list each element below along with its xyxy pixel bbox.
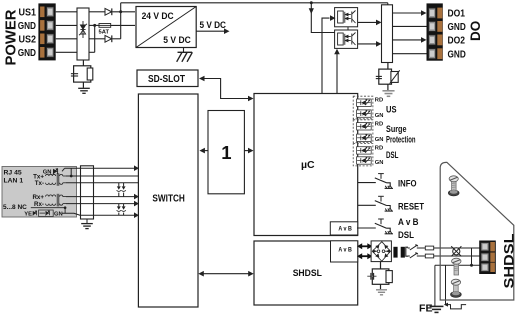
svg-text:5AT: 5AT: [99, 29, 110, 35]
svg-text:SD-SLOT: SD-SLOT: [148, 73, 185, 85]
svg-text:US: US: [386, 104, 397, 114]
svg-text:YE: YE: [24, 212, 32, 218]
svg-text:RD: RD: [375, 145, 383, 151]
svg-text:SHDSL: SHDSL: [501, 233, 517, 289]
svg-text:µC: µC: [301, 159, 315, 171]
svg-text:Rx+: Rx+: [32, 194, 44, 201]
svg-text:A v B: A v B: [398, 217, 419, 228]
svg-text:RD: RD: [375, 98, 383, 104]
svg-text:5 V DC: 5 V DC: [200, 20, 227, 31]
svg-text:GND: GND: [18, 48, 36, 59]
svg-text:INFO: INFO: [398, 179, 417, 190]
svg-text:DO1: DO1: [448, 9, 466, 20]
svg-text:GND: GND: [448, 49, 466, 60]
svg-text:GN: GN: [54, 212, 63, 218]
svg-text:GN: GN: [375, 160, 384, 166]
svg-text:SWITCH: SWITCH: [152, 193, 185, 204]
svg-text:US1: US1: [19, 7, 37, 18]
svg-text:5...8 NC: 5...8 NC: [3, 204, 27, 211]
svg-text:RESET: RESET: [398, 201, 424, 212]
svg-text:GN: GN: [375, 113, 384, 119]
svg-text:5 V DC: 5 V DC: [163, 35, 191, 45]
svg-text:A v B: A v B: [338, 248, 352, 254]
svg-text:US2: US2: [19, 34, 37, 45]
svg-text:DO2: DO2: [448, 36, 466, 47]
svg-text:FE: FE: [419, 303, 433, 314]
svg-text:SHDSL: SHDSL: [293, 268, 323, 278]
svg-text:GND: GND: [448, 22, 466, 33]
svg-text:GND: GND: [18, 21, 36, 32]
svg-text:GN: GN: [375, 137, 384, 143]
svg-text:A v B: A v B: [338, 226, 352, 232]
svg-text:DSL: DSL: [398, 230, 414, 241]
svg-text:Protection: Protection: [386, 135, 416, 145]
svg-text:Rx-: Rx-: [34, 201, 44, 208]
svg-text:RJ 45: RJ 45: [4, 169, 22, 176]
svg-text:RD: RD: [375, 121, 383, 127]
svg-text:1: 1: [221, 142, 231, 163]
svg-text:24 V DC: 24 V DC: [142, 11, 174, 21]
svg-text:Tx-: Tx-: [35, 180, 44, 187]
svg-text:DSL: DSL: [386, 150, 399, 160]
svg-text:Surge: Surge: [386, 124, 407, 134]
svg-text:DO: DO: [468, 21, 483, 41]
svg-text:LAN 1: LAN 1: [4, 178, 24, 185]
